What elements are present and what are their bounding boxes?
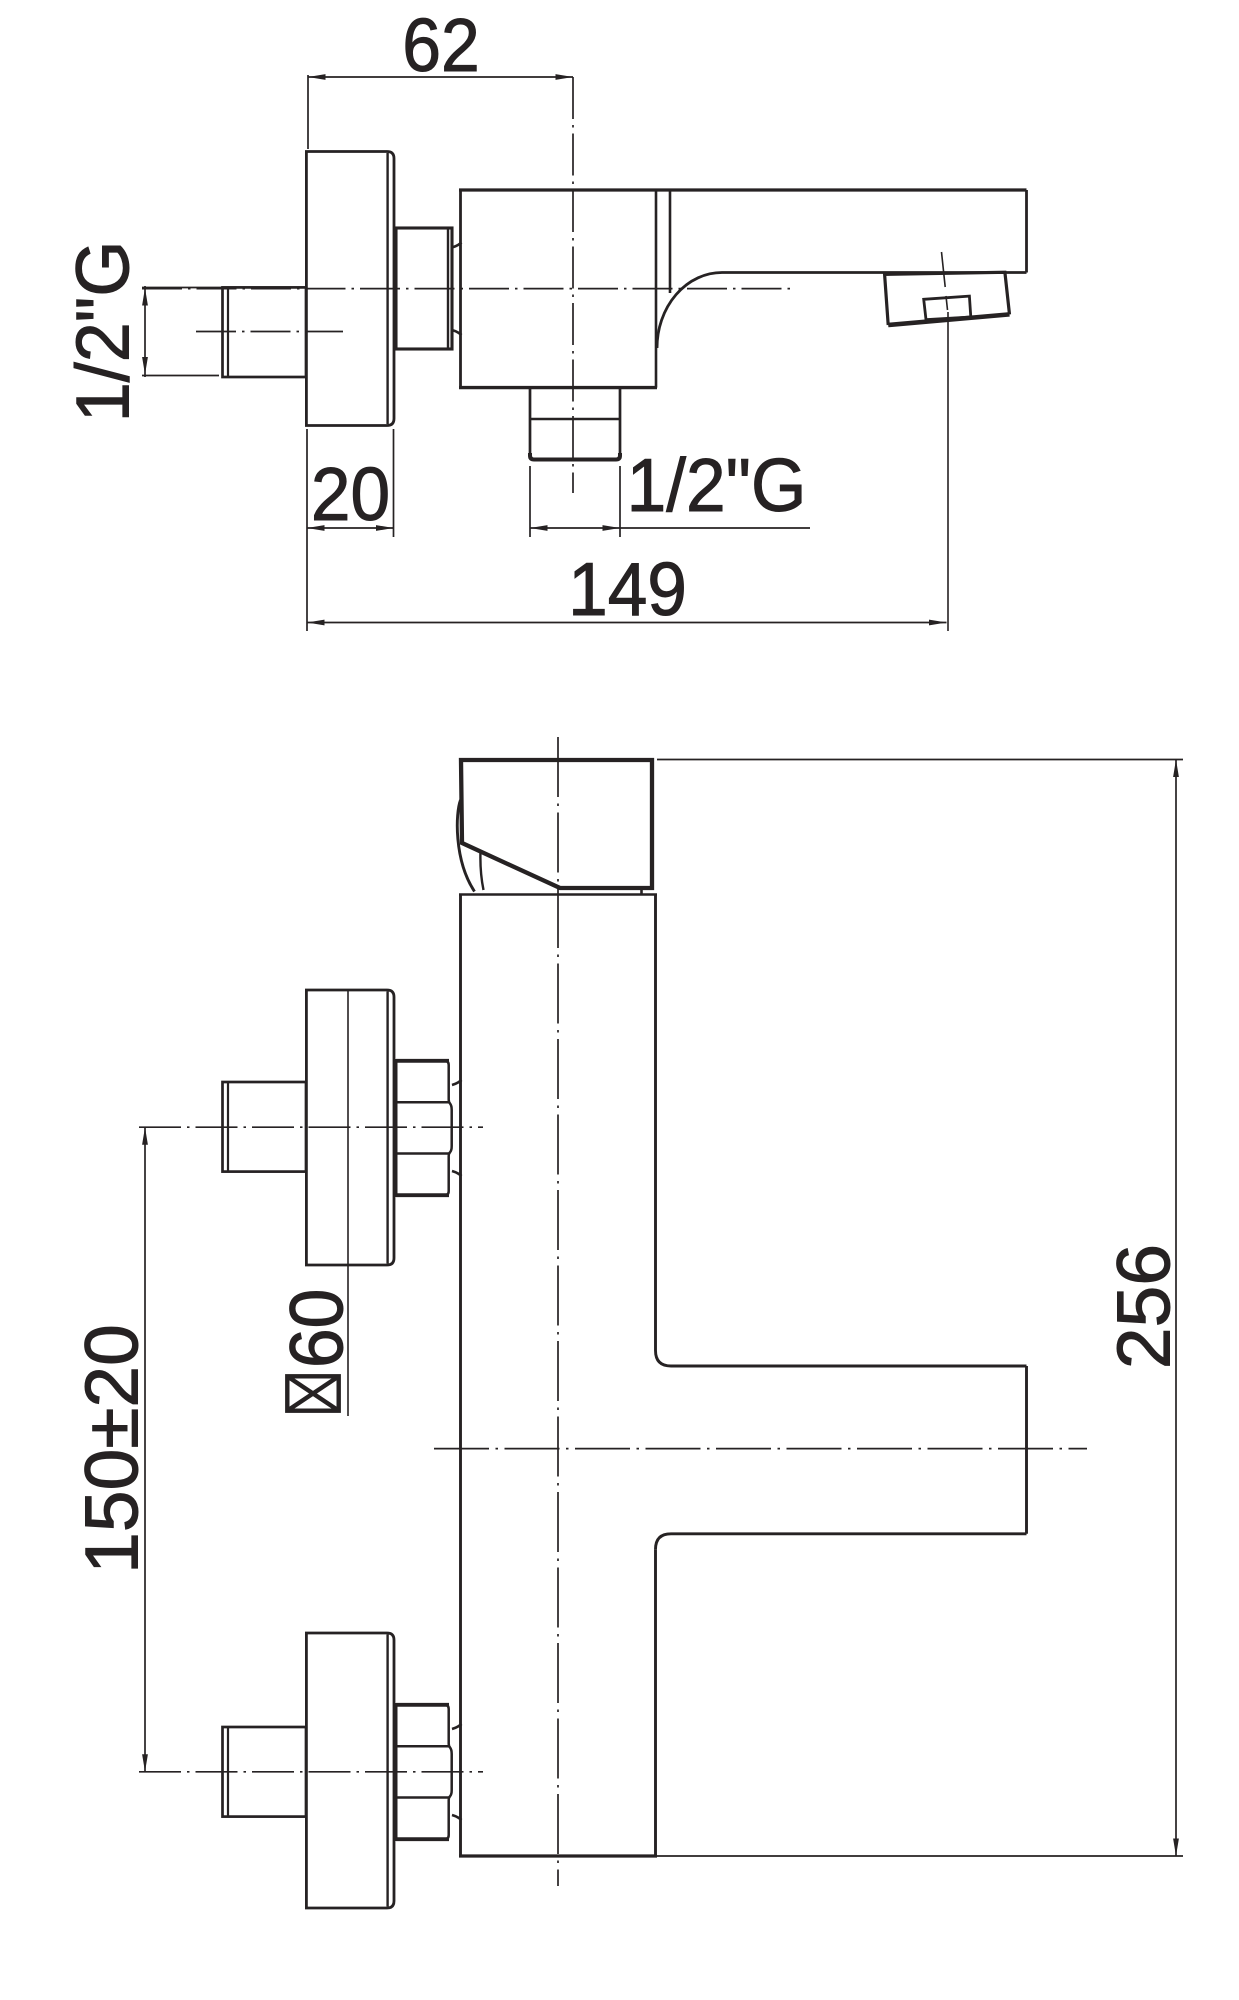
- dim 1/2G left arrow down: [142, 357, 148, 375]
- body left edge (front): [459, 895, 462, 1857]
- hex adapter chamfer tick top: [452, 243, 462, 248]
- upper hex nut outline (front): [396, 1061, 445, 1196]
- body top edge (front): [459, 893, 657, 896]
- dim 1/2G left dimension line: [144, 286, 146, 377]
- upper hex nut right side contour: [445, 1061, 452, 1196]
- hex adapter inner facet line: [447, 228, 449, 349]
- inlet nipple axis centerline (top view): [196, 331, 343, 333]
- dim 1/2G outlet extension line left: [529, 466, 531, 537]
- lever tip arc: [457, 800, 474, 892]
- dim 62 extension line left: [307, 75, 309, 149]
- lower hex nut chamfer tick top: [452, 1724, 462, 1729]
- shower outlet port left edge: [529, 389, 532, 459]
- dim 149 arrow right: [929, 620, 947, 626]
- dim 20 dimension line: [307, 527, 394, 529]
- svg-text:256: 256: [1102, 1244, 1186, 1369]
- dim 256 top extension line: [657, 759, 1183, 761]
- spout top fillet: [656, 1351, 672, 1367]
- lower hex nut chamfer tick bottom: [452, 1815, 462, 1820]
- dim 256 bottom extension line: [657, 1855, 1183, 1857]
- lower hex nut top edge thick: [396, 1703, 449, 1707]
- shower outlet collar line: [530, 418, 620, 421]
- lower wall flange (front): [306, 1633, 394, 1908]
- inlet nipple chamfer edge: [227, 287, 229, 377]
- lower nipple chamfer edge: [227, 1727, 229, 1817]
- mixer body top edge + spout top edge: [459, 188, 1027, 191]
- hex adapter chamfer tick bottom: [452, 330, 462, 335]
- handle collar tick: [640, 888, 643, 895]
- wall flange (side view disc): [306, 152, 394, 426]
- body bottom edge (front): [459, 1854, 657, 1857]
- lever underside rear edge: [480, 851, 483, 890]
- dim 1/2G outlet extension line right: [619, 466, 621, 537]
- dim 62 dimension line: [308, 76, 573, 78]
- dim 1/2G top extension line: [142, 287, 228, 289]
- lower hex nut right side contour: [445, 1705, 452, 1840]
- lever handle outline (thick): [461, 760, 652, 888]
- upper inlet axis centerline (front): [139, 1126, 483, 1128]
- dim 256 arrow down: [1173, 1839, 1179, 1857]
- body right face edge: [655, 190, 658, 388]
- body right edge lower (front): [654, 1549, 657, 1856]
- flange size leader line: [347, 990, 349, 1416]
- wall flange rim edge line: [386, 153, 388, 424]
- dim 150+-20 arrow down: [142, 1754, 148, 1772]
- flange size symbol box-X: [287, 1376, 338, 1410]
- aerator tilted centerline: [942, 252, 948, 310]
- upper hex nut chamfer tick top: [452, 1080, 462, 1085]
- outlet axis centerline (vertical dash-dot through 62 dim): [572, 77, 574, 493]
- body right edge upper (front): [654, 895, 657, 1351]
- dim 1/2G outlet arrow left: [530, 525, 548, 531]
- dim 1/2G bottom extension line: [142, 375, 219, 377]
- svg-text:150±20: 150±20: [70, 1324, 154, 1574]
- lower flange rim edge line: [386, 1635, 388, 1907]
- upper nipple chamfer edge: [227, 1082, 229, 1172]
- upper hex nut chamfer tick bottom: [452, 1171, 462, 1176]
- dim 1/2G outlet dimension line: [530, 527, 810, 529]
- mixer body bottom edge: [459, 386, 657, 389]
- svg-text:60: 60: [276, 1289, 359, 1368]
- lower inlet nipple (front): [223, 1727, 307, 1817]
- upper inlet nipple (front): [223, 1082, 307, 1172]
- spout axis centerline (front): [434, 1448, 1087, 1450]
- svg-text:62: 62: [402, 4, 480, 88]
- svg-text:149: 149: [568, 548, 687, 631]
- svg-text:1/2"G: 1/2"G: [627, 444, 807, 527]
- spout bottom fillet: [656, 1534, 672, 1550]
- spout bottom edge (front): [671, 1532, 1027, 1535]
- dim 256 dimension line: [1175, 760, 1177, 1857]
- dim 149 right extension line (from aerator): [947, 312, 949, 631]
- spout top edge (front): [671, 1365, 1027, 1368]
- spout root edge: [669, 190, 672, 293]
- lower inlet axis centerline (front): [139, 1771, 483, 1773]
- svg-text:1/2"G: 1/2"G: [60, 241, 145, 423]
- spout underside line: [722, 271, 1027, 274]
- dim 62 arrow left: [308, 74, 326, 80]
- dim 20 extension line right: [393, 429, 395, 537]
- spout end edge (front): [1025, 1366, 1028, 1534]
- shower outlet port right edge: [619, 389, 622, 459]
- lower hex nut bottom edge thick: [396, 1837, 449, 1841]
- hex adapter nut (side view): [396, 228, 452, 349]
- dim 1/2G left arrow up: [142, 288, 148, 306]
- front vertical centerline: [557, 737, 559, 1886]
- lower hex nut facet line top: [396, 1745, 449, 1748]
- dim 256 arrow up: [1173, 760, 1179, 778]
- dim 20 arrow right: [376, 525, 394, 531]
- lower hex nut facet line bottom: [396, 1796, 449, 1799]
- aerator housing bottom edge thick: [888, 314, 1009, 325]
- inlet nipple (side view): [223, 287, 307, 377]
- dim 20 arrow left: [307, 525, 325, 531]
- svg-text:20: 20: [311, 453, 390, 536]
- shower outlet bottom edge: [530, 453, 620, 460]
- dim 20 extension line left / dim 149 shared: [306, 429, 308, 631]
- lower hex nut outline (front): [396, 1705, 445, 1840]
- dim 150+-20 arrow up: [142, 1127, 148, 1145]
- upper hex nut top edge thick: [396, 1059, 449, 1063]
- top view main axis centerline: [142, 288, 795, 290]
- upper wall flange (front): [306, 990, 394, 1265]
- dim 149 arrow left: [307, 620, 325, 626]
- aerator housing (tilted box at spout end): [885, 272, 1010, 325]
- dim 1/2G outlet arrow right: [603, 525, 621, 531]
- spout end edge: [1025, 190, 1028, 273]
- upper flange rim edge line: [386, 992, 388, 1264]
- dim 150+-20 dimension line: [144, 1127, 146, 1772]
- dim 149 dimension line: [307, 622, 947, 624]
- upper hex nut bottom edge thick: [396, 1193, 449, 1197]
- spout underside fillet curve: [657, 273, 722, 349]
- aerator outlet inner box: [924, 296, 971, 320]
- upper hex nut facet line top: [396, 1101, 449, 1104]
- upper hex nut facet line bottom: [396, 1152, 449, 1155]
- dim 62 arrow right: [556, 74, 574, 80]
- mixer body left edge: [459, 190, 462, 388]
